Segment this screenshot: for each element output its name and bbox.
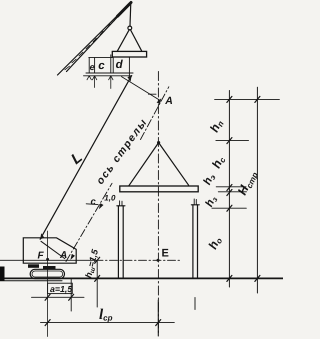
svg-text:c: c — [98, 60, 105, 72]
L arrowhead bottom — [40, 233, 44, 239]
left column anchor nubs — [120, 201, 122, 206]
boom axis arrowhead at A — [157, 98, 162, 104]
right column anchor nubs — [194, 199, 196, 205]
sling apex dot (installed position) — [157, 141, 160, 144]
hoist cable — [129, 3, 132, 27]
boom lattice chord 2 — [58, 7, 127, 75]
svg-text:d: d — [116, 59, 124, 71]
extension below dim line 2 — [110, 76, 112, 89]
cell divider e-left — [88, 58, 90, 73]
leader tail of letter c — [86, 203, 98, 206]
extension below dim line 1 — [94, 76, 96, 88]
hsh tick bottom — [95, 275, 100, 281]
svg-text:с: с — [91, 197, 97, 208]
lsr tick left — [45, 320, 50, 326]
boom axis lower segment (dash-dot) — [66, 183, 112, 261]
dimension line c d — [84, 75, 132, 77]
leader from d to point A — [122, 77, 161, 101]
left edge blob — [0, 267, 5, 282]
crane counterweight blob 2 — [43, 266, 56, 269]
cell bottom line — [86, 72, 133, 74]
level line F-A-E dash-dot part — [95, 259, 182, 261]
crane pivot dot F — [46, 258, 49, 261]
a dimension box — [48, 283, 73, 293]
hsh dimension vertical — [96, 260, 98, 307]
crane rotation axis vertical — [47, 231, 49, 337]
boom apex thick wedge — [118, 3, 132, 17]
cell divider c/d — [110, 55, 112, 73]
hook level tick line — [216, 140, 249, 142]
traverse bar (upper position) — [112, 51, 146, 57]
boom axis arrowhead near A — [70, 254, 75, 260]
slash ticks on V2 — [255, 96, 260, 281]
left column cap — [117, 205, 125, 207]
sling leg left (upper position) — [117, 30, 129, 52]
svg-text:E: E — [162, 248, 169, 260]
boom axis arrow on lower segment — [99, 203, 104, 209]
left column line b — [122, 206, 124, 278]
boom heel line to A — [41, 241, 65, 258]
lsr tick right — [156, 320, 161, 326]
svg-text:A: A — [59, 250, 67, 261]
slash ticks on V1 — [227, 96, 232, 281]
ground line — [0, 277, 283, 279]
crane counterweight blob 1 — [28, 264, 39, 268]
left column line a — [117, 206, 119, 278]
level line F-A-E solid part — [0, 259, 95, 261]
hook axis extension — [128, 57, 130, 80]
right column line a — [192, 205, 194, 278]
svg-text:F: F — [38, 251, 45, 262]
L arrowhead top — [127, 76, 131, 82]
sling leg left (installed) — [129, 143, 159, 186]
right column line b — [197, 205, 199, 278]
right column cap — [191, 204, 199, 206]
hook pulley — [128, 26, 132, 30]
sling leg right (upper position) — [130, 30, 141, 51]
crawler track inner — [32, 271, 63, 277]
boom axis upper segment (dash-dot) — [141, 87, 169, 140]
boom lattice ticks — [65, 10, 123, 70]
cell divider d-left — [112, 57, 114, 73]
a dimension line — [32, 296, 85, 298]
svg-text:A: A — [164, 95, 173, 107]
node E dot — [157, 259, 160, 262]
crawler track outer — [30, 269, 64, 278]
cell divider e/c — [94, 58, 96, 73]
svg-text:1,0: 1,0 — [104, 194, 116, 203]
a extension line — [70, 278, 72, 311]
lsr dimension line — [41, 322, 175, 324]
top level line (point A level) — [215, 98, 280, 100]
sling leg right (installed) — [159, 143, 189, 186]
dim vertical V1 — [228, 91, 230, 288]
top level dash near A — [149, 93, 157, 95]
bar bottom level tick line — [218, 191, 246, 193]
central axis solid part below ground — [157, 300, 159, 336]
svg-text:е: е — [90, 62, 95, 72]
column top level tick line — [212, 207, 246, 209]
ground line left thickening — [0, 280, 62, 282]
bar top level tick line — [216, 186, 246, 188]
a tick left — [45, 294, 50, 300]
boom length line L — [40, 76, 131, 240]
traverse bar (installed) — [120, 186, 198, 192]
cell top line — [89, 57, 113, 59]
small tick below right column — [194, 298, 196, 310]
a tick right — [69, 294, 74, 300]
hsh tick top — [95, 257, 100, 263]
svg-text:a=1,5: a=1,5 — [50, 284, 72, 294]
dim arrows on c d line — [87, 76, 113, 80]
dim vertical V2 — [256, 87, 258, 293]
central vertical axis of structure — [157, 72, 159, 334]
boom lattice chord 1 — [67, 3, 132, 72]
crane body — [23, 238, 76, 263]
